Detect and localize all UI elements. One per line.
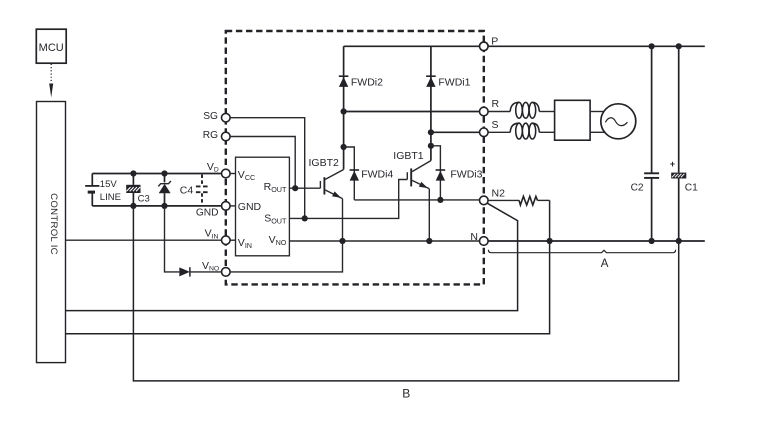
svg-text:RG: RG <box>203 130 218 141</box>
svg-text:N2: N2 <box>492 187 506 199</box>
wire R line <box>344 111 480 113</box>
gate driver IC U1 <box>236 157 290 256</box>
wire to FWDi4 <box>344 147 355 200</box>
terminal N2 <box>480 187 506 204</box>
junction C3 top <box>130 170 136 176</box>
junction C1/N <box>676 238 682 244</box>
wire VIN terminal to VIN pin <box>230 239 235 241</box>
junction shunt / N bus <box>547 238 553 244</box>
svg-text:B: B <box>402 386 410 400</box>
brace A <box>488 250 675 253</box>
svg-text:15V: 15V <box>100 179 118 190</box>
svg-text:C4: C4 <box>180 185 194 197</box>
battery 15V LINE <box>85 174 121 206</box>
svg-text:CONTROL IC: CONTROL IC <box>48 193 59 255</box>
diode VNO external <box>179 267 221 276</box>
wire N2 line (FWDi4/FWDi3 anodes to N2 terminal) <box>354 199 479 201</box>
terminal VD <box>207 161 230 178</box>
diode FWDi1 <box>426 76 471 88</box>
junction zener bottom <box>161 203 167 209</box>
svg-text:C2: C2 <box>631 182 644 193</box>
junction SOUT/SG <box>302 215 308 221</box>
svg-text:GND: GND <box>196 208 219 219</box>
terminal R <box>480 98 500 116</box>
terminal N <box>470 231 488 246</box>
wire shunt sense to CONTROL IC <box>66 200 550 333</box>
svg-text:FWDi3: FWDi3 <box>450 169 482 181</box>
wire B return loop <box>133 206 678 381</box>
svg-text:LINE: LINE <box>100 192 121 203</box>
svg-text:C3: C3 <box>138 193 150 204</box>
terminal RG <box>203 130 230 141</box>
zener diode 15V clamp <box>158 174 171 206</box>
svg-text:S: S <box>492 119 499 131</box>
wire to FWDi3 <box>431 146 441 200</box>
wire RG to ROUT net <box>230 137 295 189</box>
svg-text:A: A <box>601 258 609 270</box>
svg-text:MCU: MCU <box>39 42 64 54</box>
svg-text:C1: C1 <box>685 182 698 193</box>
svg-text:FWDi2: FWDi2 <box>351 77 383 89</box>
wire ROUT to IGBT2 gate <box>289 187 320 189</box>
rectifier block <box>555 100 591 140</box>
svg-text:P: P <box>491 35 498 47</box>
junction zener top <box>161 170 167 176</box>
wire IGBT1 collector to S net / FWDi1 column <box>430 46 432 160</box>
terminal SG <box>203 111 230 122</box>
junction FWDi1 / S line <box>428 129 434 135</box>
svg-text:GND: GND <box>238 201 262 213</box>
capacitor C2 <box>631 46 660 241</box>
junction IGBT2 emitter / N bus <box>339 238 345 244</box>
capacitor C1 (electrolytic) <box>670 46 698 241</box>
junction FWDi2 / R line <box>341 108 347 114</box>
wire VIN from CONTROL IC <box>66 239 222 241</box>
diode FWDi2 <box>339 76 383 88</box>
wire GND to VNO external diode branch <box>165 206 180 272</box>
wire VD supply rail <box>92 173 221 175</box>
svg-text:R: R <box>492 98 500 110</box>
wire IGBT2 emitter down to N bus and VNO terminal <box>230 199 342 272</box>
junction C3 bottom <box>130 203 136 209</box>
svg-text:N: N <box>470 231 478 243</box>
resistor shunt N2 <box>488 196 549 205</box>
inductor L2 (S phase) <box>488 123 554 139</box>
terminal P <box>480 35 499 50</box>
junction C1/P <box>676 43 682 49</box>
terminal S <box>480 119 499 137</box>
transistor IGBT2 <box>309 157 344 199</box>
wire GND terminal to GND pin <box>230 205 235 207</box>
junction C2/N <box>649 238 655 244</box>
junction C2/P <box>649 43 655 49</box>
CONTROL IC block <box>37 102 66 363</box>
wire N2 kelvin sense to CONTROL IC <box>66 203 518 310</box>
IPM dashed module boundary <box>226 31 484 284</box>
capacitor C4 (dashed optional) <box>196 175 208 206</box>
wire IGBT2 collector to R net / FWDi2 column <box>343 46 345 169</box>
wire VD to VCC pin <box>230 173 235 175</box>
junction FWDi3 / N2 line <box>437 197 443 203</box>
junction IGBT2 collector / FWDi4 branch <box>341 144 347 150</box>
svg-text:SG: SG <box>203 111 218 122</box>
transistor IGBT1 <box>393 150 431 189</box>
terminal VIN <box>205 228 231 245</box>
junction ROUT/RG <box>292 185 298 191</box>
MCU block <box>36 29 66 63</box>
diode FWDi4 <box>350 169 394 181</box>
terminal GND <box>196 202 230 219</box>
wire IGBT1 emitter to N bus <box>428 189 430 241</box>
wire S line <box>431 131 480 133</box>
wire GND supply rail <box>92 205 221 207</box>
wire P line <box>344 45 705 47</box>
svg-text:FWDi1: FWDi1 <box>438 77 470 89</box>
wire VNO pin to N terminal (N bus) <box>289 240 479 242</box>
svg-text:IGBT1: IGBT1 <box>393 150 424 162</box>
junction IGBT1 collector / FWDi3 branch <box>428 143 434 149</box>
svg-text:+: + <box>670 159 675 169</box>
wire block to AC source bottom <box>590 131 606 133</box>
terminal VNO <box>202 260 230 276</box>
svg-text:IGBT2: IGBT2 <box>309 157 340 169</box>
dotted arrow MCU to CONTROL IC <box>49 64 53 98</box>
wire SG to SOUT net <box>230 118 305 219</box>
inductor L1 (R phase) <box>488 102 554 118</box>
diode FWDi3 <box>436 169 483 181</box>
junction IGBT1 emitter / N bus <box>426 238 432 244</box>
wire block to AC source top <box>590 111 604 113</box>
capacitor C3 <box>126 174 150 206</box>
svg-text:FWDi4: FWDi4 <box>361 169 393 181</box>
wire SOUT to IGBT1 gate <box>289 180 407 219</box>
AC source <box>601 104 636 139</box>
